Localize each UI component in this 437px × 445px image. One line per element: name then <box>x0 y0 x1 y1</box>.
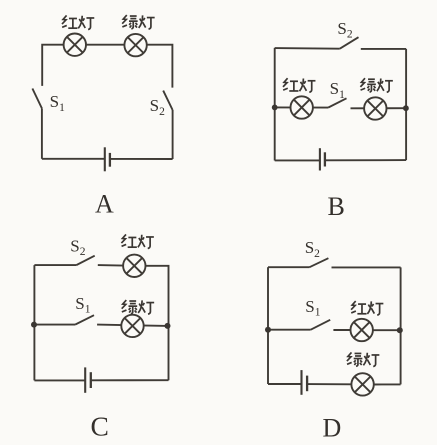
wire A top <box>42 45 172 88</box>
battery C long plate <box>84 367 86 392</box>
svg-text:A: A <box>95 190 114 219</box>
junction dot B right <box>403 105 409 111</box>
wire B right vertical <box>405 49 407 160</box>
wire C bottom right <box>91 379 169 381</box>
wire C top left segment <box>34 264 76 266</box>
lamp green (circuit B) <box>364 97 386 119</box>
wire D bottom left <box>268 383 302 385</box>
wire B bottom right <box>325 159 406 161</box>
label 绿灯 (circuit A) <box>122 15 154 29</box>
wire B top left segment <box>275 47 340 50</box>
svg-text:S2: S2 <box>337 19 352 41</box>
switch S2 (circuit D) blade <box>310 258 329 267</box>
label 红灯 (circuit A) <box>62 15 94 29</box>
svg-text:S1: S1 <box>75 294 90 316</box>
switch S1 (circuit A) blade <box>32 89 42 109</box>
svg-text:B: B <box>328 192 345 221</box>
battery B long plate <box>319 148 321 170</box>
wire B top right segment <box>361 48 406 50</box>
wire B middle branch <box>275 106 328 108</box>
switch S2 (circuit B) blade <box>340 37 359 49</box>
wire D bottom right <box>374 383 401 385</box>
svg-text:C: C <box>91 411 109 442</box>
battery C short plate <box>90 372 92 388</box>
wire C left vertical <box>33 265 35 380</box>
label 绿灯 (circuit B) <box>360 78 392 92</box>
switch S2 (circuit A) blade <box>163 91 172 110</box>
wire C top to corner <box>145 266 168 380</box>
battery B short plate <box>324 152 326 166</box>
battery A long plate <box>104 147 106 171</box>
label 绿灯 (circuit C) <box>122 300 154 314</box>
svg-text:S2: S2 <box>70 237 85 259</box>
wire D top left segment <box>268 266 310 268</box>
junction dot B left <box>272 105 278 111</box>
label 绿灯 (circuit D) <box>347 352 379 366</box>
battery D short plate <box>306 376 308 392</box>
lamp red (circuit B) <box>291 96 313 118</box>
wire B bottom left <box>275 159 320 161</box>
svg-text:D: D <box>323 414 342 443</box>
wire D left vertical <box>267 267 269 384</box>
wire D top right segment <box>332 266 401 268</box>
wire D bottom middle <box>307 383 351 385</box>
junction dot D right <box>397 327 403 333</box>
wire C bottom left <box>34 379 85 381</box>
svg-text:S1: S1 <box>330 79 345 101</box>
switch S2 (circuit C) blade <box>76 256 94 265</box>
svg-text:S1: S1 <box>50 92 65 114</box>
wire D right vertical <box>400 267 402 384</box>
wire C top right segment <box>98 264 124 267</box>
svg-text:S2: S2 <box>305 238 320 260</box>
switch S1 (circuit D) blade <box>311 320 331 330</box>
battery D long plate <box>300 370 302 395</box>
battery A short plate <box>109 153 111 167</box>
wire D middle lamp to right dot <box>373 329 400 331</box>
junction dot C left <box>31 322 37 328</box>
wire D middle branch <box>268 329 311 331</box>
lamp green (circuit D) <box>351 373 373 395</box>
wire A left lower <box>41 108 43 158</box>
switch S1 (circuit B) blade <box>328 98 346 107</box>
wire A bottom left <box>42 158 105 160</box>
junction dot C right <box>165 323 171 329</box>
svg-text:S2: S2 <box>150 96 165 118</box>
wire B left vertical <box>274 48 276 161</box>
lamp green (circuit C) <box>121 315 143 337</box>
label 红灯 (circuit B) <box>283 78 315 92</box>
wire A bottom right <box>110 158 173 160</box>
lamp red (circuit C) <box>123 255 145 277</box>
label 红灯 (circuit C) <box>121 234 153 248</box>
wire D middle right of switch <box>333 329 351 331</box>
wire A right lower <box>172 110 174 159</box>
wire C middle right of switch <box>97 325 167 326</box>
lamp green (circuit A) <box>124 34 146 56</box>
svg-text:S1: S1 <box>305 297 320 319</box>
label 红灯 (circuit D) <box>351 301 383 315</box>
wire B middle right of switch <box>351 107 406 109</box>
lamp red (circuit D) <box>351 319 373 341</box>
junction dot D left <box>265 327 271 333</box>
lamp red (circuit A) <box>64 34 86 56</box>
switch S1 (circuit C) blade <box>75 315 94 324</box>
wire C middle branch <box>34 324 75 326</box>
